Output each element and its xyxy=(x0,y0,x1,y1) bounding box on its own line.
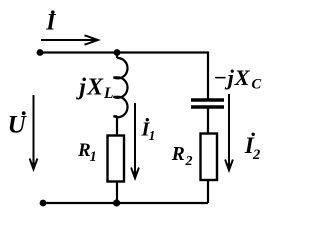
svg-text:2: 2 xyxy=(185,154,193,169)
wire top horizontal xyxy=(40,51,208,53)
wire branch2 top (to capacitor) xyxy=(207,51,209,98)
resistor R2 body xyxy=(201,134,218,181)
current arrow I2 (downward) xyxy=(225,94,233,170)
node top junction xyxy=(114,49,121,56)
wire R1 to bottom xyxy=(116,182,118,204)
svg-text:jX: jX xyxy=(75,74,104,100)
wire inductor to R1 xyxy=(116,117,118,137)
capacitor -jX_C top plate xyxy=(191,98,224,102)
svg-text:C: C xyxy=(252,77,262,93)
node top-left terminal xyxy=(37,49,44,56)
wire bottom horizontal xyxy=(43,202,208,204)
inductor jX_L coil xyxy=(114,58,128,117)
svg-text:I: I xyxy=(45,10,56,36)
resistor R1 body xyxy=(108,136,125,182)
svg-text:−jX: −jX xyxy=(213,65,250,90)
svg-text:U: U xyxy=(8,112,28,139)
wire capacitor to R2 xyxy=(207,109,209,135)
voltage arrow U (left, downward) xyxy=(30,95,38,169)
svg-text:1: 1 xyxy=(149,128,156,143)
svg-text:1: 1 xyxy=(90,149,97,165)
current arrow I (top, rightward) xyxy=(41,35,98,44)
node bottom junction xyxy=(113,199,120,206)
wire branch1 top stub xyxy=(116,53,118,59)
capacitor -jX_C bottom plate xyxy=(191,105,224,109)
current arrow I1 (downward) xyxy=(131,103,139,178)
svg-text:L: L xyxy=(103,85,113,102)
svg-text:2: 2 xyxy=(252,147,260,163)
wire R2 to bottom xyxy=(207,180,209,203)
svg-text:R: R xyxy=(171,144,185,165)
node bottom-left terminal xyxy=(40,200,47,207)
